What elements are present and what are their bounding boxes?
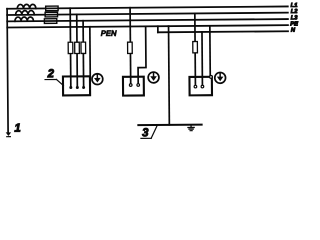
exposed-conductive-part symbol of load 1 (circle with down arrow) bbox=[92, 74, 103, 85]
wire PEN-to-N split stub bbox=[157, 26, 159, 32]
fuse F4 (load1 L1) bbox=[68, 42, 73, 53]
terminal dot load1 L2 bbox=[76, 86, 79, 89]
fuse F2 on L2 bbox=[45, 12, 57, 17]
ground arrow (system earth electrode) bbox=[6, 132, 11, 136]
wire load2 phase L1 drop bbox=[129, 8, 132, 84]
fuse F1 on L1 bbox=[46, 6, 58, 11]
label 2 leader line bbox=[56, 79, 63, 85]
wire load1 phase L3 drop bbox=[82, 21, 85, 88]
fuse F3 on L3 bbox=[44, 19, 56, 24]
svg-text:L1: L1 bbox=[291, 3, 298, 9]
label 2 underline bbox=[45, 78, 56, 80]
svg-text:L2: L2 bbox=[291, 9, 299, 15]
wire N bbox=[158, 31, 288, 32]
terminal dot load3 phase bbox=[194, 85, 197, 88]
svg-text:1: 1 bbox=[14, 123, 21, 135]
winding W3 (source phase L3) bbox=[15, 17, 34, 21]
exposed-conductive-part symbol of load 2 (circle with down arrow) bbox=[148, 72, 159, 83]
terminal dot load1 L1 bbox=[69, 86, 72, 89]
svg-text:N: N bbox=[291, 28, 296, 34]
wire L3 bbox=[7, 19, 288, 21]
wire load1 phase L1 drop bbox=[69, 8, 72, 87]
fuse F8 (load3 phase) bbox=[193, 42, 198, 53]
winding W2 (source phase L2) bbox=[16, 11, 35, 15]
terminal dot load2 phase bbox=[129, 84, 132, 87]
wire L2 bbox=[7, 13, 288, 15]
wire L1 bbox=[7, 6, 288, 8]
load 2 enclosure box bbox=[123, 77, 144, 96]
fuse F6 (load1 L3) bbox=[81, 42, 86, 53]
load 3 enclosure box bbox=[189, 77, 212, 96]
svg-text:2: 2 bbox=[47, 68, 55, 80]
terminal dot load2 neutral bbox=[137, 84, 140, 87]
wire load2 PEN tap bbox=[138, 26, 146, 84]
load 1 enclosure box bbox=[63, 76, 90, 95]
terminal dot load1 L3 bbox=[82, 86, 85, 89]
wire load3 neutral drop bbox=[201, 32, 203, 86]
terminal dot load3 neutral bbox=[201, 85, 204, 88]
fuse F5 (load1 L2) bbox=[75, 42, 80, 53]
wire PE drop to main earthing terminal bbox=[168, 26, 171, 125]
winding W1 (source phase L1) bbox=[17, 4, 36, 8]
ground symbol (earth electrode) bbox=[190, 125, 192, 127]
wire load1 phase L2 drop bbox=[76, 14, 79, 87]
wire load1 PEN drop bbox=[89, 27, 91, 77]
wire PEN / PE bbox=[7, 25, 288, 27]
wire load3 phase L2 drop bbox=[194, 13, 197, 86]
fuse F7 (load2 phase) bbox=[128, 42, 133, 53]
wire source earthing conductor bbox=[7, 9, 8, 133]
label 3 leader line bbox=[151, 125, 157, 138]
exposed-conductive-part symbol of load 3 (circle with down arrow) bbox=[215, 72, 226, 83]
svg-text:PEN: PEN bbox=[101, 29, 117, 38]
terminal dot load3 PE (box corner) bbox=[210, 75, 213, 78]
main earthing conductor bar bbox=[138, 124, 201, 127]
label 3 underline bbox=[141, 137, 151, 139]
svg-text:3: 3 bbox=[142, 127, 149, 139]
wire load3 PE drop bbox=[209, 26, 211, 76]
